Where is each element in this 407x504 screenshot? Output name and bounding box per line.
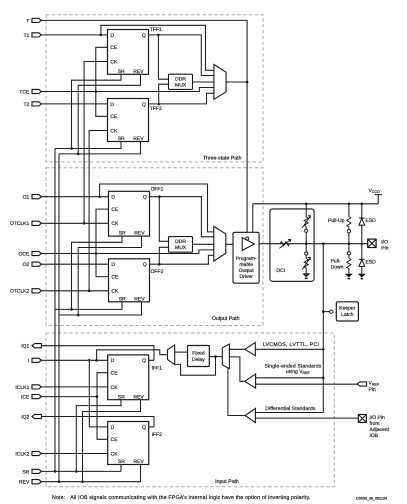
svg-text:IQ2: IQ2 — [21, 414, 29, 420]
svg-text:CK: CK — [110, 59, 118, 65]
svg-text:O2: O2 — [23, 262, 30, 268]
svg-text:SR: SR — [118, 394, 125, 400]
svg-text:Pin: Pin — [369, 387, 376, 393]
svg-text:SR: SR — [119, 296, 126, 302]
svg-text:REV: REV — [134, 394, 145, 400]
svg-text:TFF2: TFF2 — [150, 106, 162, 112]
svg-text:REV: REV — [133, 69, 144, 75]
svg-text:OFF2: OFF2 — [151, 269, 164, 275]
svg-text:CK: CK — [110, 128, 118, 134]
svg-text:I: I — [28, 358, 29, 364]
svg-text:Driver: Driver — [240, 274, 254, 280]
svg-text:Latch: Latch — [341, 312, 353, 318]
svg-text:T: T — [26, 18, 29, 24]
svg-text:REV: REV — [134, 231, 145, 237]
svg-text:Delay: Delay — [192, 357, 205, 363]
svg-text:VREF: VREF — [369, 381, 380, 387]
svg-text:D: D — [111, 262, 115, 268]
svg-text:REV: REV — [134, 459, 145, 465]
svg-text:REV: REV — [19, 480, 30, 486]
svg-text:VCCO: VCCO — [369, 188, 381, 194]
svg-text:D: D — [110, 102, 114, 108]
svg-text:IQ1: IQ1 — [21, 344, 29, 350]
svg-text:Input Path: Input Path — [215, 479, 239, 485]
svg-text:Q: Q — [143, 195, 147, 201]
svg-text:SR: SR — [118, 459, 125, 465]
svg-text:CE: CE — [110, 45, 118, 51]
svg-text:DCI: DCI — [277, 268, 286, 274]
svg-text:TFF1: TFF1 — [150, 27, 162, 33]
svg-text:OCE: OCE — [18, 251, 30, 257]
svg-text:CE: CE — [110, 114, 118, 120]
svg-text:Differential Standards: Differential Standards — [265, 406, 316, 412]
svg-text:D: D — [111, 425, 115, 431]
svg-text:LVCMOS, LVTTL, PCI: LVCMOS, LVTTL, PCI — [263, 342, 320, 348]
svg-text:ICLK1: ICLK1 — [15, 385, 29, 391]
svg-text:Q: Q — [142, 425, 146, 431]
svg-text:IFF1: IFF1 — [152, 366, 162, 372]
svg-text:SR: SR — [118, 136, 125, 142]
svg-text:CK: CK — [111, 221, 119, 227]
svg-text:REV: REV — [134, 296, 145, 302]
svg-text:SR: SR — [118, 69, 125, 75]
svg-text:using VREF: using VREF — [286, 369, 311, 375]
svg-text:ICLK2: ICLK2 — [15, 451, 29, 457]
svg-text:CE: CE — [111, 371, 119, 377]
svg-text:CK: CK — [111, 385, 119, 391]
svg-text:OFF1: OFF1 — [151, 187, 164, 193]
svg-text:DDR: DDR — [175, 239, 186, 245]
svg-text:MUX: MUX — [175, 83, 187, 89]
svg-text:TCE: TCE — [19, 89, 30, 95]
svg-text:MUX: MUX — [175, 245, 187, 251]
svg-text:Q: Q — [142, 102, 146, 108]
svg-text:Note: All IOB signals commun: Note: All IOB signals communicating with… — [52, 495, 310, 501]
svg-text:Keeper: Keeper — [339, 305, 355, 311]
svg-text:Q: Q — [142, 33, 146, 39]
svg-text:Output Path: Output Path — [212, 316, 240, 322]
svg-text:D: D — [110, 33, 114, 39]
svg-text:Three-state Path: Three-state Path — [203, 156, 242, 162]
svg-text:IFF2: IFF2 — [152, 432, 162, 438]
svg-text:D: D — [111, 195, 115, 201]
svg-text:REV: REV — [133, 136, 144, 142]
svg-text:ICE: ICE — [21, 395, 30, 401]
svg-text:DDR: DDR — [175, 76, 186, 82]
svg-text:OTCLK2: OTCLK2 — [10, 289, 30, 295]
svg-text:D: D — [111, 358, 115, 364]
svg-text:Down: Down — [331, 264, 344, 270]
svg-text:Pull-Up: Pull-Up — [328, 218, 345, 224]
svg-text:IOB: IOB — [370, 433, 379, 439]
svg-text:ESD: ESD — [366, 218, 377, 224]
svg-text:Fixed: Fixed — [192, 351, 204, 357]
svg-text:T2: T2 — [23, 102, 29, 108]
svg-text:O1: O1 — [23, 195, 30, 201]
svg-text:CE: CE — [111, 437, 119, 443]
svg-text:Q: Q — [143, 262, 147, 268]
svg-text:T1: T1 — [23, 33, 29, 39]
svg-text:OTCLK1: OTCLK1 — [10, 221, 30, 227]
svg-text:CK: CK — [111, 289, 119, 295]
svg-text:Pin: Pin — [381, 246, 388, 252]
svg-text:ESD: ESD — [366, 259, 377, 265]
svg-text:Q: Q — [142, 358, 146, 364]
svg-text:CE: CE — [111, 207, 119, 213]
svg-text:CE: CE — [111, 275, 119, 281]
svg-text:SR: SR — [119, 231, 126, 237]
svg-text:DS099_06_082104: DS099_06_082104 — [356, 496, 387, 500]
svg-text:CK: CK — [111, 451, 119, 457]
svg-text:SR: SR — [22, 469, 29, 475]
